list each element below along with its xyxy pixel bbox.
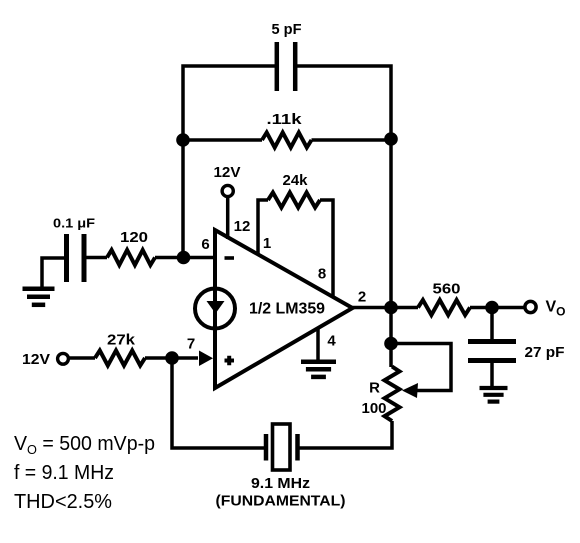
svg-text:THD<2.5%: THD<2.5%: [14, 491, 112, 513]
wire: feedback row right arm: [312, 138, 392, 142]
resistor 560: [418, 300, 470, 315]
terminal: Vo output: [525, 301, 536, 312]
wire: left rail down to inverting input: [181, 140, 185, 258]
current source symbol inside op-amp: [195, 289, 235, 329]
potentiometer R 100 body: [385, 367, 400, 422]
wire: pin 1 up to 24k: [258, 200, 268, 255]
wire: 27k to pin 7 arrow: [145, 356, 198, 360]
node: junction dot right rail / feedback: [384, 132, 398, 146]
node: junction dot left rail / feedback: [176, 133, 190, 147]
svg-text:27 pF: 27 pF: [525, 344, 565, 361]
node: junction dot left rail / pin6 input: [177, 251, 191, 265]
node: junction dot pot top: [384, 337, 398, 351]
resistor .11k: [262, 133, 312, 148]
ground: 27pF: [480, 386, 508, 390]
wire: pin7 node down and along bottom to crystal: [172, 358, 264, 448]
wire: top feedback left (cap to left rail corner): [183, 66, 276, 140]
capacitor 27 pF plates: [468, 342, 516, 361]
svg-text:560: 560: [433, 281, 461, 298]
node: junction dot Vo filter: [485, 301, 499, 315]
svg-text:R: R: [369, 380, 380, 397]
svg-text:6: 6: [201, 236, 209, 253]
op-amp U1 1/2 LM359 triangle: [215, 230, 353, 388]
svg-text:7: 7: [187, 336, 195, 353]
wire: top feedback right (cap to right rail corner): [296, 66, 391, 140]
resistor 24k: [268, 193, 320, 208]
svg-text:120: 120: [120, 229, 148, 246]
svg-text:100: 100: [362, 400, 387, 417]
svg-text:.11k: .11k: [267, 111, 303, 128]
resistor 120: [107, 250, 155, 265]
wire: 24k down to pin 8: [320, 200, 333, 297]
wire: feedback row left arm: [183, 138, 262, 142]
node: junction dot output: [384, 301, 398, 315]
svg-text:12V: 12V: [214, 164, 241, 181]
svg-text:9.1 MHz: 9.1 MHz: [251, 475, 310, 492]
svg-text:VO: VO: [546, 299, 566, 319]
capacitor 0.1 uF plates: [67, 234, 85, 282]
crystal Y1 9.1 MHz: [264, 434, 269, 461]
svg-text:12V: 12V: [22, 351, 50, 368]
pot wiper arrow: [402, 383, 418, 398]
wire: pin 4 to ground: [316, 328, 320, 360]
terminal: 12V bias input (left): [58, 353, 69, 364]
node: junction dot pin7 / crystal branch: [165, 351, 179, 365]
svg-text:27k: 27k: [107, 332, 136, 349]
ground: input coupling cap ground: [42, 258, 67, 287]
svg-text:24k: 24k: [283, 172, 309, 189]
wire: cap to 120 resistor: [87, 256, 108, 260]
terminal: 12V supply (pin 12): [222, 185, 233, 196]
wire: op-amp output pin 2 to right rail: [353, 306, 392, 310]
svg-text:5 pF: 5 pF: [272, 21, 302, 38]
svg-text:1: 1: [263, 235, 271, 252]
wire: 120 resistor to op-amp pin 6: [155, 256, 215, 260]
svg-text:f = 9.1 MHz: f = 9.1 MHz: [14, 462, 114, 484]
wire: 12V terminal to 27k: [68, 356, 95, 360]
wire: pot bottom to crystal row: [300, 421, 393, 448]
capacitor 5 pF plates: [277, 42, 295, 91]
svg-text:12: 12: [234, 218, 251, 235]
wire: output rail down to pot: [389, 308, 393, 368]
svg-text:4: 4: [327, 333, 336, 350]
wire: 12V terminal to pin 12: [226, 197, 230, 240]
op-amp minus input symbol: [225, 256, 235, 260]
svg-text:VO = 500 mVp-p: VO = 500 mVp-p: [14, 433, 155, 457]
svg-text:8: 8: [318, 266, 326, 283]
wire: 27pF to ground: [490, 363, 494, 386]
wire: Vo node down to 27pF: [490, 308, 494, 341]
wire: 560 to Vo node: [470, 306, 492, 310]
ground: op-amp pin 4: [301, 359, 336, 364]
wire: output node to 560: [391, 306, 418, 310]
wire: right rail down to output node: [389, 139, 393, 308]
wire: node to Vo terminal: [492, 306, 525, 310]
svg-text:2: 2: [358, 289, 366, 306]
pin 7 input arrow: [199, 351, 213, 367]
svg-text:1/2 LM359: 1/2 LM359: [249, 301, 325, 318]
resistor 27k: [95, 351, 145, 366]
op-amp plus input symbol: [225, 356, 235, 365]
wire: pot wiper loop: [391, 344, 451, 391]
svg-text:(FUNDAMENTAL): (FUNDAMENTAL): [216, 493, 346, 510]
svg-text:0.1 μF: 0.1 μF: [53, 216, 95, 231]
